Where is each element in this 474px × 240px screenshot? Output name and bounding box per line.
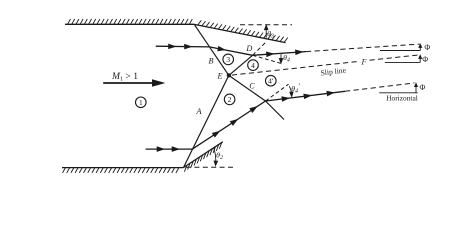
top wall hatching bbox=[68, 19, 193, 24]
transmitted shock beyond P bbox=[266, 101, 285, 120]
theta3 angle arrow at wall bbox=[265, 27, 267, 38]
Phi bracket row1 (region-4 direction vs horizontal) bbox=[380, 46, 420, 51]
ramp hatching bbox=[184, 142, 221, 171]
flow arrow M1 bbox=[103, 82, 154, 84]
slip line (dashed from E, gap at F) bbox=[232, 55, 418, 75]
svg-text:D: D bbox=[245, 44, 252, 53]
refracted shock E-C-P bbox=[229, 75, 266, 101]
region 1 circle bbox=[136, 97, 147, 108]
Phi bracket row2 (slip line vs horizontal) bbox=[385, 57, 420, 63]
region 4 circle bbox=[248, 60, 259, 71]
svg-text:4: 4 bbox=[251, 61, 255, 70]
flow line in region 4' from P (solid then dashed) bbox=[266, 91, 346, 101]
theta4prime reference dashed line from P bbox=[266, 84, 289, 101]
streamline in region 3 (deflected to D) bbox=[209, 47, 252, 55]
deflected top wall bbox=[194, 24, 285, 42]
streamline in region 2 (deflected along ramp to P) bbox=[192, 101, 265, 149]
region 4prime circle bbox=[266, 75, 277, 86]
upstream flow arrow below (region1 -> shock A) bbox=[146, 148, 193, 150]
upstream flow arrow above (region1 -> shock B) bbox=[156, 45, 210, 48]
svg-text:1: 1 bbox=[139, 98, 143, 107]
svg-text:A: A bbox=[195, 107, 202, 116]
node E (dot) bbox=[227, 73, 231, 77]
refracted shock E-D bbox=[229, 55, 253, 75]
incident shock A (from ramp corner to E) bbox=[184, 75, 229, 167]
theta4 angle arrow at D bbox=[280, 54, 282, 61]
region 3 circle bbox=[223, 54, 234, 65]
theta2 angle arrow at ramp bbox=[214, 148, 216, 164]
Phi bracket row3 (region-4' direction vs horizontal) bbox=[379, 85, 418, 93]
svg-text:F: F bbox=[360, 57, 367, 66]
svg-text:2: 2 bbox=[228, 95, 232, 104]
theta4 reference dashed line from D bbox=[253, 55, 283, 64]
ramp surface bbox=[184, 142, 223, 168]
svg-text:Φ: Φ bbox=[422, 55, 428, 64]
dashed extension of shock ED beyond D bbox=[253, 42, 266, 55]
svg-text:3: 3 bbox=[226, 55, 230, 64]
svg-text:B: B bbox=[208, 57, 213, 66]
top wall bbox=[65, 23, 194, 25]
svg-text:C: C bbox=[249, 82, 255, 91]
bottom wall bbox=[62, 167, 184, 169]
dashed horizontal reference at top corner bbox=[240, 24, 292, 26]
svg-text:Φ: Φ bbox=[419, 83, 425, 92]
svg-text:Horizontal: Horizontal bbox=[386, 93, 418, 102]
dashed horizontal reference at ramp base bbox=[186, 166, 236, 168]
svg-text:E: E bbox=[216, 72, 222, 81]
svg-text:4′: 4′ bbox=[268, 77, 274, 86]
svg-text:M1 > 1: M1 > 1 bbox=[111, 71, 138, 83]
deflected wall hatching bbox=[198, 20, 288, 42]
svg-text:Φ: Φ bbox=[424, 43, 430, 52]
region 2 circle bbox=[224, 94, 235, 105]
bottom wall hatching bbox=[63, 168, 179, 173]
theta4prime angle arrow at P bbox=[289, 86, 291, 94]
incident shock B (from top corner to E) bbox=[194, 24, 229, 75]
flow line in region 4 from D (solid then dashed) bbox=[253, 52, 306, 56]
